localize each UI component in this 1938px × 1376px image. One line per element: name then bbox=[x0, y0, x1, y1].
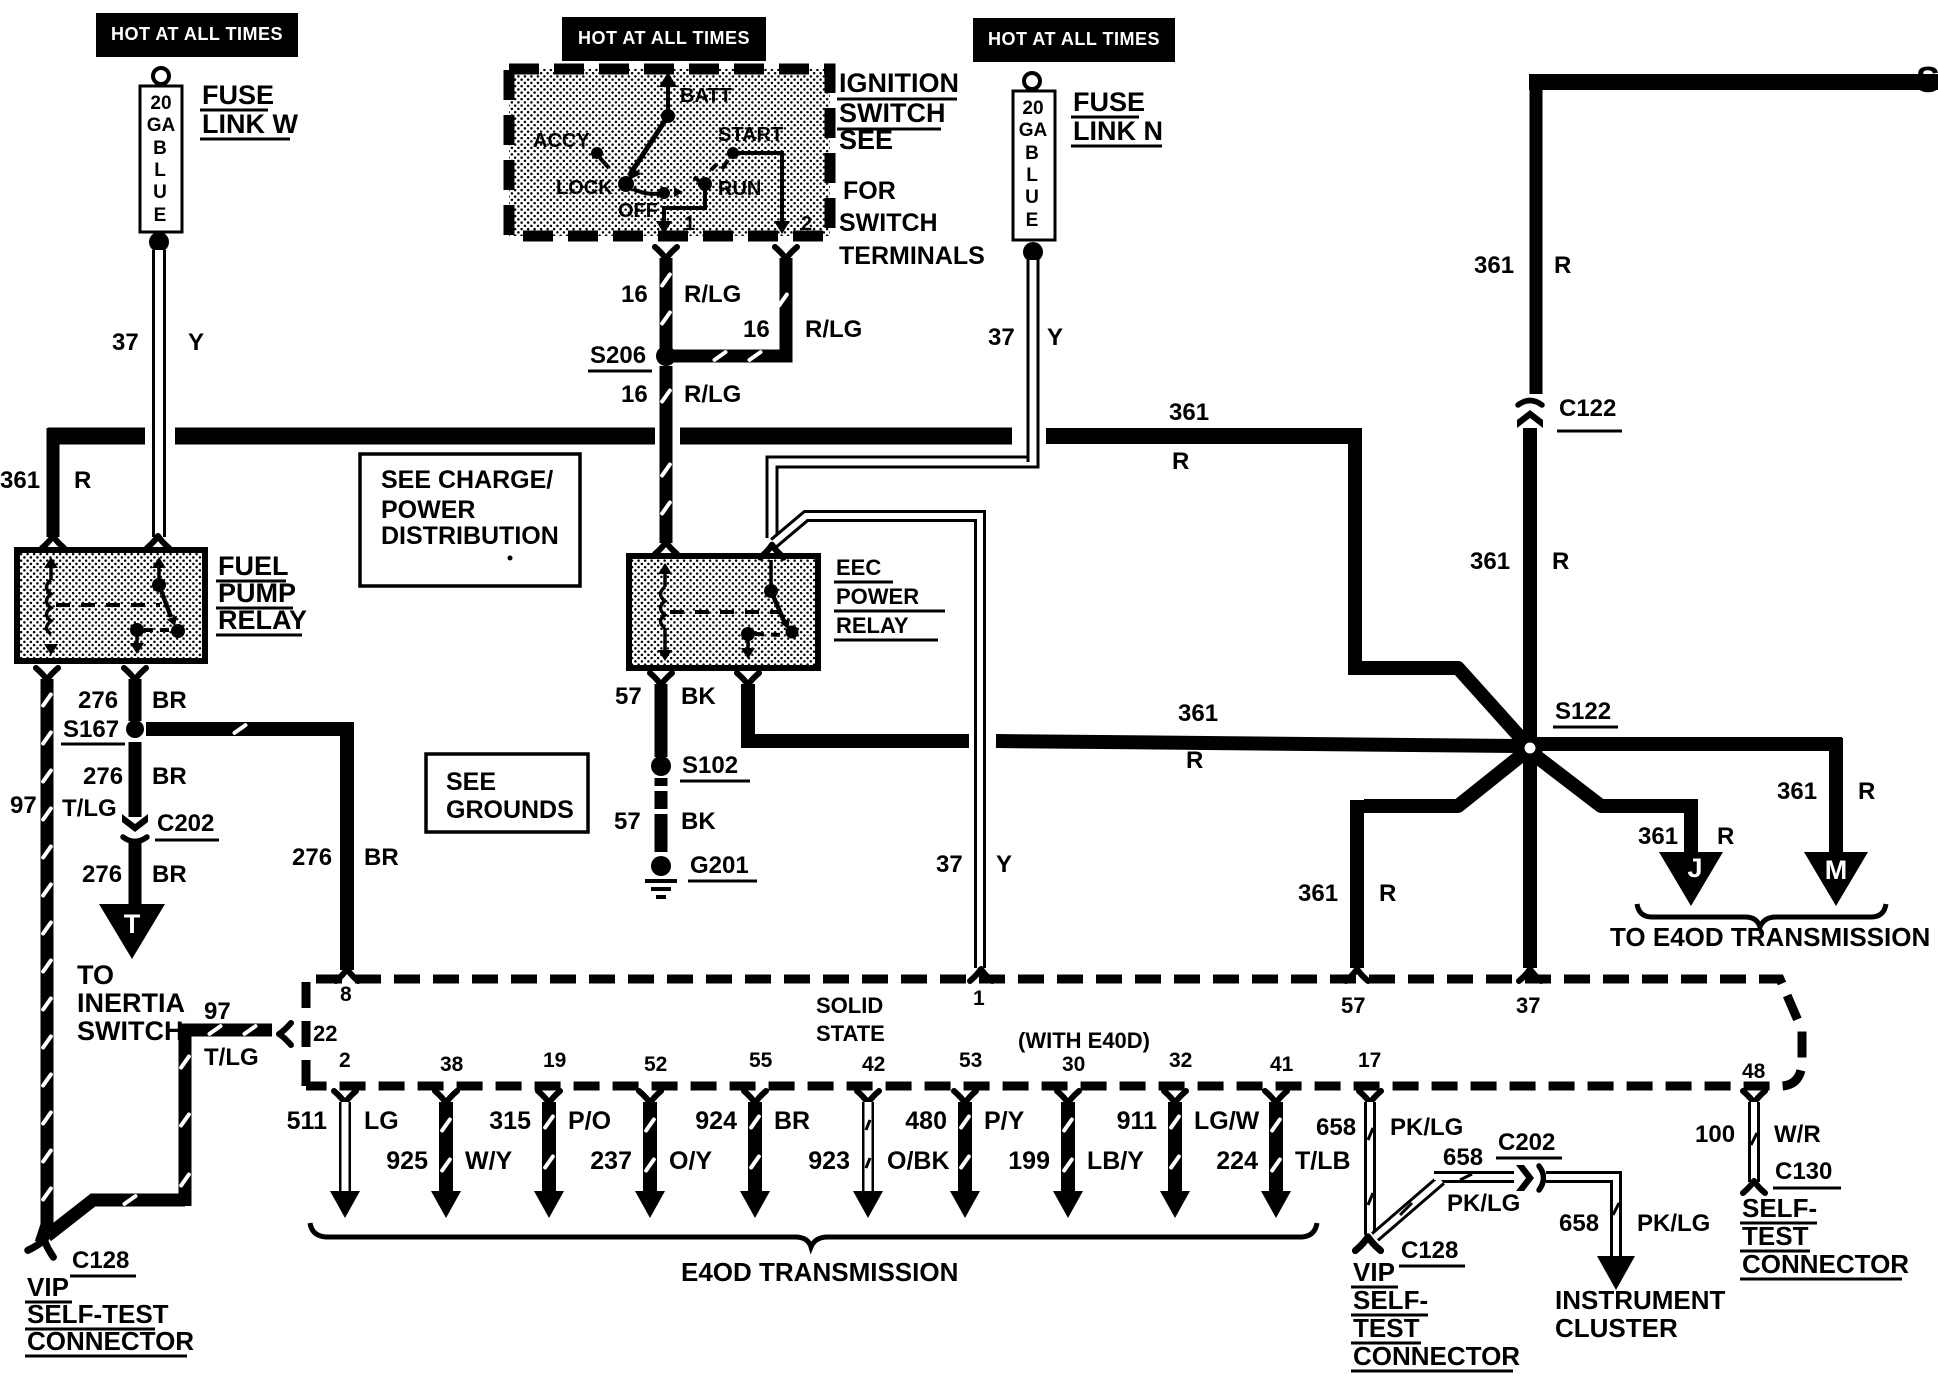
fuel pump relay box bbox=[17, 550, 205, 661]
svg-text:2: 2 bbox=[339, 1049, 351, 1072]
ignition switch BATT terminal bbox=[666, 82, 670, 116]
svg-text:41: 41 bbox=[1270, 1053, 1294, 1076]
svg-text:LG/W: LG/W bbox=[1194, 1107, 1260, 1135]
arrow T to inertia switch bbox=[99, 904, 165, 959]
svg-text:R/LG: R/LG bbox=[684, 281, 741, 308]
svg-text:Y: Y bbox=[1047, 324, 1063, 351]
svg-text:BR: BR bbox=[152, 687, 187, 714]
fuel pump relay pin fork (top right) bbox=[147, 536, 169, 548]
svg-text:VIP: VIP bbox=[1353, 1257, 1395, 1287]
svg-text:FUEL: FUEL bbox=[218, 551, 289, 581]
svg-text:S102: S102 bbox=[682, 752, 738, 779]
svg-text:SEE: SEE bbox=[839, 125, 893, 155]
wire 511 LG pin 2 to E4OD transmission bbox=[339, 1102, 351, 1192]
wire 16 R/LG S206 down to EEC relay bbox=[660, 366, 673, 428]
svg-text:S167: S167 bbox=[63, 716, 119, 743]
svg-text:SWITCH: SWITCH bbox=[839, 98, 945, 128]
svg-text:POWER: POWER bbox=[381, 496, 475, 524]
svg-text:57: 57 bbox=[615, 683, 642, 710]
arrow to instrument cluster bbox=[1597, 1256, 1635, 1290]
svg-text:PK/LG: PK/LG bbox=[1390, 1114, 1463, 1141]
wire 361 R EEC relay to S122 bbox=[741, 684, 969, 741]
wire 37 Y EEC relay to solid state pin 1 (hollow) bbox=[774, 516, 980, 968]
svg-text:CONNECTOR: CONNECTOR bbox=[27, 1326, 194, 1356]
svg-text:SELF-: SELF- bbox=[1353, 1285, 1428, 1315]
wire 57 BK S102 to G201 bbox=[655, 778, 668, 786]
svg-text:R/LG: R/LG bbox=[805, 316, 862, 343]
wire 57 BK to S102 bbox=[655, 684, 668, 757]
svg-text:48: 48 bbox=[1742, 1060, 1766, 1083]
svg-text:P/O: P/O bbox=[568, 1107, 611, 1135]
fuse link N bbox=[1024, 73, 1040, 89]
svg-text:1: 1 bbox=[684, 213, 695, 235]
solid state pin 30 fork bbox=[1057, 1091, 1079, 1103]
solid state pin 22 fork bbox=[279, 1023, 291, 1045]
svg-text:FUSE: FUSE bbox=[202, 80, 274, 110]
wire 924 BR pin 55 to E4OD transmission bbox=[748, 1102, 762, 1192]
svg-text:POWER: POWER bbox=[836, 584, 919, 609]
ground G201 bbox=[651, 856, 671, 876]
svg-text:TO E4OD TRANSMISSION: TO E4OD TRANSMISSION bbox=[1610, 922, 1930, 952]
svg-text:R: R bbox=[1554, 252, 1571, 279]
svg-text:T: T bbox=[124, 909, 141, 939]
svg-text:SELF-: SELF- bbox=[1742, 1193, 1817, 1223]
svg-text:LINK N: LINK N bbox=[1073, 116, 1163, 146]
svg-text:R: R bbox=[1552, 548, 1569, 575]
svg-text:38: 38 bbox=[440, 1053, 464, 1076]
svg-text:SOLID: SOLID bbox=[816, 993, 883, 1018]
svg-text:FUSE: FUSE bbox=[1073, 87, 1145, 117]
svg-text:SELF-TEST: SELF-TEST bbox=[27, 1299, 169, 1329]
svg-text:PK/LG: PK/LG bbox=[1447, 1190, 1520, 1217]
wire 315 P/O pin 19 to E4OD transmission bbox=[542, 1102, 556, 1192]
svg-text:L: L bbox=[1026, 165, 1038, 186]
connector C128 fork (bottom left) bbox=[28, 1236, 57, 1257]
svg-text:EEC: EEC bbox=[836, 555, 881, 580]
svg-text:911: 911 bbox=[1117, 1107, 1157, 1135]
svg-text:E: E bbox=[1026, 210, 1039, 231]
fuse link W bbox=[153, 68, 169, 84]
wire 658 PK/LG C128 to C202 (hollow) bbox=[1375, 1177, 1514, 1237]
splice S122 bbox=[1523, 744, 1537, 968]
ignition switch box bbox=[509, 69, 830, 236]
svg-text:O/Y: O/Y bbox=[669, 1147, 712, 1175]
wire 237 O/Y pin 52 to E4OD transmission bbox=[643, 1102, 657, 1192]
svg-text:R: R bbox=[1717, 823, 1734, 850]
wire 361 R bus left drop to fuel pump relay bbox=[47, 428, 60, 537]
svg-text:361: 361 bbox=[1638, 823, 1678, 850]
svg-text:55: 55 bbox=[749, 1049, 773, 1072]
solid state pin 1 fork bbox=[970, 969, 992, 981]
svg-text:LG: LG bbox=[364, 1107, 399, 1135]
svg-text:361: 361 bbox=[1777, 778, 1817, 805]
note box SEE GROUNDS bbox=[426, 754, 588, 832]
svg-text:W/R: W/R bbox=[1774, 1121, 1821, 1148]
svg-text:OFF: OFF bbox=[618, 200, 658, 222]
svg-text:658: 658 bbox=[1559, 1210, 1599, 1237]
svg-text:C130: C130 bbox=[1775, 1158, 1832, 1185]
wire 658 PK/LG pin 17 to C128 (hollow) bbox=[1364, 1102, 1376, 1235]
svg-text:S122: S122 bbox=[1555, 698, 1611, 725]
svg-text:52: 52 bbox=[644, 1053, 667, 1076]
svg-text:224: 224 bbox=[1216, 1147, 1258, 1175]
ignition switch START contact bbox=[727, 147, 739, 159]
svg-text:VIP: VIP bbox=[27, 1272, 69, 1302]
solid state pin 53 fork bbox=[954, 1091, 976, 1103]
svg-text:LOCK: LOCK bbox=[556, 177, 613, 199]
wire 923 O/BK pin 42 to E4OD transmission bbox=[862, 1102, 874, 1192]
svg-text:B: B bbox=[153, 138, 167, 159]
solid state pin 32 fork bbox=[1164, 1091, 1186, 1103]
svg-text:TERMINALS: TERMINALS bbox=[839, 242, 985, 270]
wire 100 W/R pin 48 to C130 (hollow) bbox=[1748, 1102, 1760, 1182]
solid state pin 19 fork bbox=[538, 1091, 560, 1103]
svg-text:Y: Y bbox=[996, 851, 1012, 878]
svg-text:R: R bbox=[1379, 880, 1396, 907]
svg-text:TEST: TEST bbox=[1353, 1313, 1420, 1343]
svg-text:C202: C202 bbox=[157, 810, 214, 837]
solid state pin 37 fork bbox=[1519, 969, 1541, 981]
svg-text:PK/LG: PK/LG bbox=[1637, 1210, 1710, 1237]
solid state pin 41 fork bbox=[1265, 1091, 1287, 1103]
svg-text:SEE: SEE bbox=[446, 768, 496, 796]
wire 276 BR S167 to solid state pin 8 bbox=[146, 729, 347, 970]
ignition terminal 1 fork bbox=[655, 247, 677, 259]
svg-text:8: 8 bbox=[340, 983, 352, 1006]
svg-text:925: 925 bbox=[386, 1147, 428, 1175]
ignition terminal 2 fork bbox=[775, 247, 797, 259]
svg-text:CONNECTOR: CONNECTOR bbox=[1353, 1341, 1520, 1371]
svg-text:BK: BK bbox=[681, 808, 716, 835]
wire 361 R C122 to S122 bbox=[1523, 428, 1537, 744]
svg-text:361: 361 bbox=[1474, 252, 1514, 279]
svg-text:BK: BK bbox=[681, 683, 716, 710]
wire 911 LG/W pin 32 to E4OD transmission bbox=[1168, 1102, 1182, 1192]
wire 37 Y from fuse link N (hollow) to EEC relay bbox=[772, 260, 1033, 538]
solid state pin 38 fork bbox=[435, 1091, 457, 1103]
EEC relay switch bbox=[769, 560, 773, 591]
svg-text:924: 924 bbox=[695, 1107, 737, 1135]
svg-text:53: 53 bbox=[959, 1049, 982, 1072]
svg-text:1: 1 bbox=[973, 987, 985, 1010]
svg-text:O/BK: O/BK bbox=[887, 1147, 950, 1175]
svg-text:HOT AT ALL TIMES: HOT AT ALL TIMES bbox=[111, 24, 283, 44]
svg-text:97: 97 bbox=[204, 998, 231, 1025]
svg-text:237: 237 bbox=[590, 1147, 632, 1175]
EEC power relay box bbox=[629, 556, 818, 668]
svg-text:361: 361 bbox=[1298, 880, 1338, 907]
svg-text:R: R bbox=[1858, 778, 1875, 805]
svg-text:R: R bbox=[1172, 448, 1189, 475]
svg-text:S: S bbox=[1916, 59, 1938, 100]
svg-text:G201: G201 bbox=[690, 852, 749, 879]
svg-text:16: 16 bbox=[621, 381, 648, 408]
fuel pump relay pin fork (top left) bbox=[42, 536, 64, 548]
solid state pin 2 fork bbox=[334, 1091, 356, 1103]
arrow J to E4OD transmission bbox=[1659, 852, 1723, 906]
svg-text:57: 57 bbox=[614, 808, 641, 835]
svg-text:37: 37 bbox=[112, 329, 139, 356]
svg-text:276: 276 bbox=[292, 844, 332, 871]
svg-text:S206: S206 bbox=[590, 342, 646, 369]
svg-text:T/LG: T/LG bbox=[204, 1044, 259, 1071]
svg-text:30: 30 bbox=[1062, 1053, 1085, 1076]
svg-text:2: 2 bbox=[801, 213, 812, 235]
svg-text:LINK W: LINK W bbox=[202, 109, 298, 139]
svg-text:BR: BR bbox=[364, 844, 399, 871]
wire 224 T/LB pin 41 to E4OD transmission bbox=[1269, 1102, 1283, 1192]
svg-text:37: 37 bbox=[988, 324, 1015, 351]
svg-text:17: 17 bbox=[1358, 1049, 1381, 1072]
svg-text:CONNECTOR: CONNECTOR bbox=[1742, 1249, 1909, 1279]
svg-text:INSTRUMENT: INSTRUMENT bbox=[1555, 1285, 1726, 1315]
svg-text:GA: GA bbox=[147, 115, 176, 136]
wire RUN to terminal 1 bbox=[664, 190, 705, 225]
note box SEE CHARGE/POWER DISTRIBUTION bbox=[360, 454, 580, 586]
svg-text:C128: C128 bbox=[1401, 1237, 1458, 1264]
wire 361 R main bus bbox=[48, 428, 145, 445]
svg-text:Y: Y bbox=[188, 329, 204, 356]
ignition switch ACCY contact bbox=[591, 147, 603, 159]
fuel pump relay contact dashed line bbox=[56, 603, 160, 607]
svg-text:32: 32 bbox=[1169, 1049, 1192, 1072]
fuel pump relay switch bbox=[157, 560, 161, 585]
svg-text:C202: C202 bbox=[1498, 1129, 1555, 1156]
svg-text:199: 199 bbox=[1008, 1147, 1050, 1175]
wire 37 Y from fuse link W (hollow) to fuel pump relay bbox=[152, 250, 166, 537]
svg-text:37: 37 bbox=[1516, 993, 1540, 1018]
svg-text:J: J bbox=[1687, 853, 1702, 883]
wire 16 R/LG terminal2 to S206 bbox=[672, 258, 786, 356]
svg-text:B: B bbox=[1025, 143, 1039, 164]
brace E4OD TRANSMISSION bbox=[310, 1223, 1317, 1247]
solid state pin 48 fork bbox=[1743, 1091, 1765, 1103]
solid state pin 52 fork bbox=[639, 1091, 661, 1103]
svg-text:16: 16 bbox=[743, 316, 770, 343]
svg-text:276: 276 bbox=[82, 861, 122, 888]
svg-text:480: 480 bbox=[905, 1107, 947, 1135]
svg-text:GA: GA bbox=[1019, 120, 1048, 141]
svg-text:INERTIA: INERTIA bbox=[77, 988, 185, 1018]
svg-text:16: 16 bbox=[621, 281, 648, 308]
wire 276 BR fuel pump relay to S167 bbox=[129, 679, 142, 721]
svg-text:SEE CHARGE/: SEE CHARGE/ bbox=[381, 466, 553, 494]
svg-text:923: 923 bbox=[808, 1147, 850, 1175]
svg-text:276: 276 bbox=[78, 687, 118, 714]
svg-text:E4OD TRANSMISSION: E4OD TRANSMISSION bbox=[681, 1257, 958, 1287]
svg-text:100: 100 bbox=[1695, 1121, 1735, 1148]
svg-text:IGNITION: IGNITION bbox=[839, 68, 959, 98]
svg-text:R: R bbox=[1186, 747, 1203, 774]
svg-text:START: START bbox=[718, 124, 783, 146]
splice S206 bbox=[656, 346, 676, 366]
solid state module dashed box bbox=[306, 979, 1802, 1086]
svg-text:658: 658 bbox=[1443, 1144, 1483, 1171]
splice S102 bbox=[651, 756, 671, 776]
svg-text:R: R bbox=[74, 467, 91, 494]
wire 658 PK/LG C202 to instrument cluster (hollow) bbox=[1546, 1177, 1616, 1260]
wire 97 T/LG fuel pump relay down to C128 bbox=[41, 679, 54, 1230]
EEC relay bottom-right pin fork bbox=[737, 673, 759, 685]
EEC relay top-right pin fork bbox=[760, 545, 783, 558]
EEC relay top-left pin fork bbox=[655, 542, 677, 554]
svg-text:C128: C128 bbox=[72, 1247, 129, 1274]
fuel pump relay pin fork (bottom left) bbox=[36, 668, 58, 680]
svg-text:PUMP: PUMP bbox=[218, 578, 296, 608]
svg-text:97: 97 bbox=[10, 792, 37, 819]
svg-text:E: E bbox=[154, 205, 167, 226]
wire 276 BR C202 to inertia switch bbox=[129, 843, 142, 906]
svg-text:57: 57 bbox=[1341, 993, 1365, 1018]
svg-text:M: M bbox=[1825, 855, 1848, 885]
connector C202 (left) bbox=[122, 814, 148, 842]
ignition switch blade BATT-LOCK bbox=[629, 116, 668, 176]
ignition switch RUN contact bbox=[698, 177, 712, 191]
svg-text:U: U bbox=[1025, 187, 1039, 208]
svg-text:BR: BR bbox=[152, 763, 187, 790]
svg-text:361: 361 bbox=[1169, 399, 1209, 426]
wire 16 R/LG terminal1 to S206 bbox=[660, 258, 673, 348]
wire 199 LB/Y pin 30 to E4OD transmission bbox=[1061, 1102, 1075, 1192]
svg-text:U: U bbox=[153, 182, 167, 203]
svg-text:361: 361 bbox=[1178, 700, 1218, 727]
svg-text:361: 361 bbox=[0, 467, 40, 494]
svg-text:511: 511 bbox=[287, 1107, 327, 1135]
svg-text:HOT AT ALL TIMES: HOT AT ALL TIMES bbox=[578, 28, 750, 48]
connector C128 fork (right) bbox=[1355, 1237, 1380, 1251]
svg-text:L: L bbox=[154, 160, 166, 181]
label HOT AT ALL TIMES (left) bbox=[96, 13, 298, 57]
svg-text:ACCY: ACCY bbox=[533, 130, 590, 152]
arrow M to E4OD transmission bbox=[1804, 852, 1868, 906]
solid state pin 17 fork bbox=[1359, 1091, 1381, 1103]
svg-text:HOT AT ALL TIMES: HOT AT ALL TIMES bbox=[988, 29, 1160, 49]
svg-text:LB/Y: LB/Y bbox=[1087, 1147, 1144, 1175]
svg-text:37: 37 bbox=[936, 851, 963, 878]
svg-text:W/Y: W/Y bbox=[465, 1147, 513, 1175]
svg-text:20: 20 bbox=[1022, 98, 1043, 119]
svg-text:C122: C122 bbox=[1559, 395, 1616, 422]
svg-text:276: 276 bbox=[83, 763, 123, 790]
connector C122 bbox=[1516, 394, 1544, 434]
svg-text:RUN: RUN bbox=[718, 178, 761, 200]
solid state pin 55 fork bbox=[744, 1091, 766, 1103]
solid state pin 8 fork bbox=[336, 969, 358, 981]
fuel pump relay coil bbox=[49, 565, 53, 580]
EEC relay contact dashed line bbox=[670, 610, 780, 614]
solid state pin 42 fork bbox=[857, 1091, 879, 1103]
svg-text:R/LG: R/LG bbox=[684, 381, 741, 408]
svg-text:RELAY: RELAY bbox=[836, 613, 909, 638]
wire 37 Y crossing bus (fuse W) bbox=[152, 420, 166, 460]
svg-text:SWITCH: SWITCH bbox=[77, 1016, 183, 1046]
EEC relay coil bbox=[663, 570, 667, 587]
svg-text:658: 658 bbox=[1316, 1114, 1356, 1141]
svg-text:(WITH E40D): (WITH E40D) bbox=[1018, 1028, 1150, 1053]
svg-text:BATT: BATT bbox=[680, 85, 732, 107]
wire START to terminal 2 bbox=[738, 153, 782, 225]
svg-text:BR: BR bbox=[774, 1107, 810, 1135]
fuel pump relay pin fork (bottom right) bbox=[124, 668, 146, 680]
svg-text:22: 22 bbox=[313, 1021, 337, 1046]
svg-text:TO: TO bbox=[77, 960, 114, 990]
svg-text:STATE: STATE bbox=[816, 1021, 885, 1046]
svg-text:315: 315 bbox=[489, 1107, 531, 1135]
svg-text:361: 361 bbox=[1470, 548, 1510, 575]
wire 97 T/LG to solid state pin 22 bbox=[47, 1200, 185, 1236]
svg-text:GROUNDS: GROUNDS bbox=[446, 796, 574, 824]
svg-text:SWITCH: SWITCH bbox=[839, 209, 938, 237]
svg-text:T/LB: T/LB bbox=[1295, 1147, 1351, 1175]
svg-text:RELAY: RELAY bbox=[218, 605, 307, 635]
ignition switch OFF contact bbox=[633, 189, 662, 194]
wire 361 R top right to S (off page) bbox=[1530, 82, 1938, 430]
svg-text:CLUSTER: CLUSTER bbox=[1555, 1313, 1678, 1343]
connector C202 (right) bbox=[1516, 1165, 1544, 1191]
svg-text:19: 19 bbox=[543, 1049, 566, 1072]
ignition switch LOCK pivot bbox=[618, 176, 634, 192]
wire 37 Y crossing bus (fuse N) bbox=[1027, 420, 1040, 462]
svg-text:20: 20 bbox=[150, 93, 171, 114]
svg-text:42: 42 bbox=[862, 1053, 885, 1076]
brace TO E4OD TRANSMISSION bbox=[1637, 904, 1886, 927]
wire 480 P/Y pin 53 to E4OD transmission bbox=[958, 1102, 972, 1192]
label HOT AT ALL TIMES (middle) bbox=[562, 17, 766, 61]
solid state pin 57 fork bbox=[1346, 969, 1368, 981]
svg-text:T/LG: T/LG bbox=[62, 795, 117, 822]
svg-text:TEST: TEST bbox=[1742, 1221, 1809, 1251]
EEC relay bottom-left pin fork bbox=[650, 673, 672, 685]
label HOT AT ALL TIMES (right) bbox=[973, 18, 1175, 62]
svg-text:P/Y: P/Y bbox=[984, 1107, 1025, 1135]
connector C130 fork bbox=[1743, 1181, 1765, 1193]
svg-text:FOR: FOR bbox=[843, 177, 896, 205]
splice S167 bbox=[126, 720, 144, 738]
wire 925 W/Y pin 38 to E4OD transmission bbox=[439, 1102, 453, 1192]
svg-text:BR: BR bbox=[152, 861, 187, 888]
svg-text:DISTRIBUTION: DISTRIBUTION bbox=[381, 522, 559, 550]
wire 276 BR S167 to C202 bbox=[129, 742, 142, 817]
